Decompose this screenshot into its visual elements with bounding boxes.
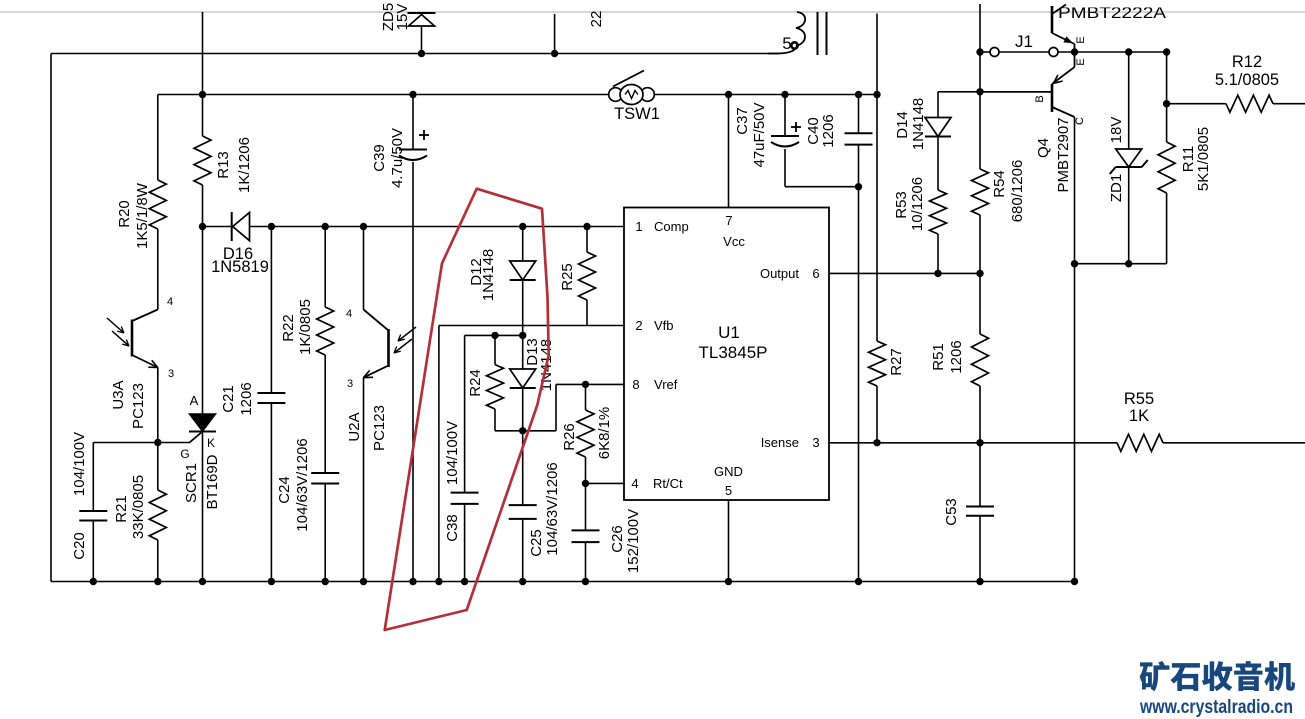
capacitor C53 xyxy=(943,498,994,526)
junction C40 ground xyxy=(855,578,862,585)
junction D12 top xyxy=(519,223,526,230)
svg-text:R22: R22 xyxy=(280,314,297,342)
wire C39 to ground xyxy=(412,162,414,582)
op-amp U1 TL3845P box xyxy=(624,208,829,501)
svg-text:152/100V: 152/100V xyxy=(625,509,642,573)
wire J1 right xyxy=(1058,51,1167,53)
wire D12 anode xyxy=(522,227,524,262)
zener diode ZD1 18V xyxy=(1108,117,1148,203)
resistor R12 5.1/0805 xyxy=(1215,53,1279,112)
resistor R54 680/1206 xyxy=(972,160,1026,223)
junction R27 Isense xyxy=(873,439,880,446)
svg-text:1K: 1K xyxy=(1129,407,1149,425)
junction C40 top xyxy=(855,91,862,98)
jumper J1 xyxy=(990,32,1058,57)
diode D12 1N4148 xyxy=(468,249,536,302)
wire C53 top xyxy=(979,443,981,507)
svg-text:18V: 18V xyxy=(1108,117,1125,144)
wire C20 top xyxy=(92,443,94,512)
svg-text:U2A: U2A xyxy=(346,412,363,441)
junction Output node xyxy=(976,270,983,277)
wire Vfb xyxy=(439,325,624,327)
junction Rt/Ct xyxy=(582,480,589,487)
junction C39 top xyxy=(409,91,416,98)
svg-text:A: A xyxy=(190,393,199,408)
wire R11 top xyxy=(1166,52,1168,142)
wire collector net xyxy=(1075,263,1167,265)
wire Isense pin 3 xyxy=(829,442,1117,444)
junction C21 ground xyxy=(268,578,275,585)
svg-text:3: 3 xyxy=(347,378,353,390)
capacitor C20 104/100V xyxy=(71,432,107,560)
junction R53 output xyxy=(934,270,941,277)
wire step to Vref xyxy=(556,384,624,430)
svg-text:PC123: PC123 xyxy=(371,405,388,451)
junction R24 top xyxy=(491,332,498,339)
wire SCR cathode xyxy=(202,432,204,582)
wire C38 bottom xyxy=(464,504,466,582)
junction Q4 base net xyxy=(976,88,983,95)
junction C25 ground xyxy=(519,578,526,585)
wire Vcc pin 7 xyxy=(728,95,730,208)
svg-text:C26: C26 xyxy=(609,525,626,553)
svg-text:Vref: Vref xyxy=(654,377,678,392)
junction node A xyxy=(199,223,206,230)
svg-text:www.crystalradio.cn: www.crystalradio.cn xyxy=(1139,697,1293,718)
svg-text:C39: C39 xyxy=(371,144,388,172)
wire stub node 22 xyxy=(554,14,556,54)
transistor Q4 PMBT2907 xyxy=(1034,52,1087,193)
optocoupler U2A PC123 xyxy=(346,308,416,451)
junction C24 ground xyxy=(322,578,329,585)
wire D13 bottom link xyxy=(495,430,556,432)
svg-text:R27: R27 xyxy=(888,348,905,376)
junction Vfb-down ground xyxy=(435,578,442,585)
junction C38 ground xyxy=(461,578,468,585)
wire R26 top xyxy=(585,384,587,410)
transistor Q5 PMBT2222A xyxy=(1052,5,1166,53)
wire aux rail top xyxy=(876,14,878,342)
svg-text:5: 5 xyxy=(725,483,732,498)
svg-text:22: 22 xyxy=(588,11,605,28)
svg-text:R20: R20 xyxy=(116,200,133,228)
svg-text:B: B xyxy=(1034,95,1046,102)
svg-text:C: C xyxy=(1074,117,1086,125)
wire R51 bottom xyxy=(979,386,981,443)
junction Vcc xyxy=(725,91,732,98)
svg-text:R21: R21 xyxy=(113,495,130,523)
svg-text:BT169D: BT169D xyxy=(204,454,221,509)
wire C39 top xyxy=(412,95,414,150)
wire Isense right xyxy=(1163,442,1305,444)
junction R25 top xyxy=(583,223,590,230)
svg-text:104/63V/1206: 104/63V/1206 xyxy=(294,438,311,531)
wire R25 bottom xyxy=(586,300,588,326)
svg-text:4: 4 xyxy=(346,308,352,320)
svg-text:Vcc: Vcc xyxy=(723,234,745,249)
junction D13 bottom xyxy=(519,427,526,434)
wire D13 cathode xyxy=(522,388,524,431)
junction R22 top xyxy=(322,223,329,230)
resistor R21 33K/0805 xyxy=(113,475,166,540)
svg-text:1N5819: 1N5819 xyxy=(211,258,269,276)
wire top rail xyxy=(51,53,779,55)
svg-text:R24: R24 xyxy=(467,369,484,397)
resistor R51 1206 xyxy=(930,334,989,386)
wire C53 bottom xyxy=(979,516,981,582)
svg-text:C24: C24 xyxy=(276,476,293,504)
wire D14 top jog xyxy=(938,92,1052,118)
svg-text:1K/0805: 1K/0805 xyxy=(297,299,314,355)
svg-text:2: 2 xyxy=(635,318,642,333)
svg-text:5: 5 xyxy=(782,34,791,53)
junction R12 node xyxy=(1163,100,1170,107)
junction C40/C37 node xyxy=(855,183,862,190)
svg-text:Q4: Q4 xyxy=(1035,138,1052,158)
pin 8 Vref xyxy=(632,377,677,392)
svg-text:Comp: Comp xyxy=(654,219,689,234)
svg-text:D14: D14 xyxy=(894,111,911,139)
svg-text:C20: C20 xyxy=(71,532,88,560)
junction D13 top xyxy=(519,332,526,339)
svg-text:U3A: U3A xyxy=(110,380,127,409)
wire C24 bottom xyxy=(324,484,326,582)
junction R26 top xyxy=(582,381,589,388)
junction aux rail xyxy=(873,91,880,98)
svg-text:5.1/0805: 5.1/0805 xyxy=(1215,71,1279,89)
junction J1 left xyxy=(976,48,983,55)
svg-text:K: K xyxy=(207,436,215,450)
wire top stub R13 xyxy=(202,12,204,136)
thermal switch TSW1 xyxy=(609,71,660,124)
svg-text:3: 3 xyxy=(168,368,174,380)
capacitor C21 1206 xyxy=(220,382,285,415)
transformer T1 winding pin 5 xyxy=(768,12,805,54)
junction zener-rail xyxy=(418,50,425,57)
wire C26 bottom xyxy=(585,542,587,581)
resistor R53 10/1206 xyxy=(893,177,947,234)
pin 2 Vfb xyxy=(635,318,673,333)
pin 6 Output xyxy=(760,266,820,281)
capacitor C37 47uF/50V xyxy=(734,102,801,167)
pin 3 Isense xyxy=(761,435,820,450)
top gray border line xyxy=(0,11,1305,13)
wire R12 left xyxy=(1167,103,1226,105)
diode D13 1N4148 xyxy=(510,335,555,391)
resistor R13 xyxy=(194,136,253,193)
svg-text:104/63V/1206: 104/63V/1206 xyxy=(544,462,561,555)
svg-text:G: G xyxy=(180,447,189,461)
svg-text:6K8/1%: 6K8/1% xyxy=(596,407,613,460)
svg-text:10/1206: 10/1206 xyxy=(909,177,926,231)
svg-text:1206: 1206 xyxy=(948,340,965,373)
svg-text:R51: R51 xyxy=(930,343,947,371)
wire D12 cathode xyxy=(522,280,524,335)
resistor R55 1K xyxy=(1117,390,1163,451)
wire U2A emitter down xyxy=(363,378,365,582)
svg-text:4: 4 xyxy=(167,296,173,308)
pin 7 Vcc xyxy=(723,213,745,249)
wire R20 top xyxy=(157,95,159,181)
wire R22 to C24 xyxy=(324,355,326,473)
diode D16 1N5819 xyxy=(211,212,269,276)
junction U2A collector xyxy=(360,223,367,230)
wire C26 top xyxy=(585,483,587,530)
wire Vfb down xyxy=(438,326,440,582)
svg-text:47uF/50V: 47uF/50V xyxy=(751,102,768,167)
capacitor C25 104/63V/1206 xyxy=(509,462,561,556)
wire R13 to node A xyxy=(202,185,204,227)
svg-text:Isense: Isense xyxy=(761,435,799,450)
thyristor SCR1 BT169D xyxy=(180,393,221,510)
capacitor C39 4.7u/50V xyxy=(371,128,429,188)
junction C53 ground xyxy=(976,578,983,585)
svg-text:1N4148: 1N4148 xyxy=(910,98,927,151)
wire Q4 base xyxy=(980,91,1051,93)
wire C21 bottom xyxy=(270,403,272,582)
junction J1 zd1 xyxy=(1125,48,1132,55)
capacitor C38 104/100V xyxy=(444,421,479,542)
svg-text:C25: C25 xyxy=(528,529,545,557)
watermark url xyxy=(1139,697,1293,718)
junction C20 ground xyxy=(90,578,97,585)
wire C38 top xyxy=(464,335,466,492)
wire Q4 collector to ground xyxy=(1074,264,1076,582)
junction C21 top xyxy=(268,223,275,230)
wire C25 top xyxy=(522,431,524,505)
wire R26 bottom xyxy=(585,457,587,483)
junction ZD1 bottom xyxy=(1125,260,1132,267)
svg-text:15V: 15V xyxy=(394,4,411,31)
wire C40 top xyxy=(858,95,860,134)
svg-text:R12: R12 xyxy=(1232,53,1262,71)
svg-text:104/100V: 104/100V xyxy=(444,421,461,485)
junction gate node xyxy=(154,439,161,446)
svg-text:Rt/Ct: Rt/Ct xyxy=(653,476,683,491)
svg-text:8: 8 xyxy=(632,377,639,392)
wire R11 bottom xyxy=(1166,193,1168,264)
wire C37 bottom jog xyxy=(785,149,859,187)
resistor R24 xyxy=(467,365,504,409)
svg-text:33K/0805: 33K/0805 xyxy=(130,475,147,539)
wire R51 top xyxy=(979,273,981,334)
svg-text:7: 7 xyxy=(725,213,732,228)
svg-text:104/100V: 104/100V xyxy=(71,432,88,496)
wire R22 top xyxy=(324,227,326,308)
svg-text:4: 4 xyxy=(631,476,638,491)
wire R21 top xyxy=(157,443,159,491)
junction collector ground xyxy=(1071,578,1078,585)
resistor R26 6K8/1% xyxy=(561,407,613,460)
wire C25 bottom xyxy=(522,519,524,582)
junction U2A ground xyxy=(360,578,367,585)
svg-text:680/1206: 680/1206 xyxy=(1009,160,1026,223)
svg-text:U1: U1 xyxy=(718,323,740,342)
svg-text:C53: C53 xyxy=(943,498,960,526)
wire Rt/Ct xyxy=(586,482,625,484)
svg-text:3: 3 xyxy=(812,435,819,450)
wire GND pin 5 xyxy=(728,500,730,582)
wire U2A collector xyxy=(363,227,365,310)
junction C37 top xyxy=(781,91,788,98)
capacitor C24 104/63V/1206 xyxy=(276,438,339,531)
optocoupler U3A PC123 xyxy=(107,296,174,429)
wire C37 top xyxy=(784,95,786,137)
svg-text:PMBT2907: PMBT2907 xyxy=(1055,117,1072,192)
svg-text:E: E xyxy=(1075,58,1087,65)
junction stub-rail xyxy=(551,50,558,57)
junction C26 ground xyxy=(582,578,589,585)
wire zener ZD5 stub xyxy=(421,26,423,54)
svg-text:1206: 1206 xyxy=(238,382,255,415)
label 22 (cropped) xyxy=(588,11,605,28)
svg-text:R53: R53 xyxy=(893,191,910,219)
wire upper rail (Vcc) xyxy=(158,94,877,96)
svg-text:PC123: PC123 xyxy=(130,383,147,429)
wire D16 anode to comp net xyxy=(250,226,625,228)
resistor R27 xyxy=(869,341,905,386)
svg-text:Vfb: Vfb xyxy=(654,318,674,333)
resistor R25 xyxy=(559,252,596,300)
wire J1 net vertical top xyxy=(979,4,981,169)
svg-text:ZD1: ZD1 xyxy=(1108,174,1125,202)
junction SCR ground xyxy=(199,578,206,585)
svg-text:C37: C37 xyxy=(734,107,751,135)
svg-text:1K/1206: 1K/1206 xyxy=(236,137,253,193)
zener diode ZD5 xyxy=(380,3,436,31)
wire C21 top xyxy=(270,227,272,394)
wire ZD1 top xyxy=(1128,52,1130,149)
wire R54 bottom xyxy=(979,215,981,273)
svg-text:SCR1: SCR1 xyxy=(183,463,200,503)
wire Q4 collector xyxy=(1074,117,1076,264)
svg-text:J1: J1 xyxy=(1015,32,1033,51)
svg-text:1N4148: 1N4148 xyxy=(480,249,497,302)
junction R13 top xyxy=(199,91,206,98)
wire D14 to R53 xyxy=(937,137,939,191)
wire C40 bottom xyxy=(858,145,860,582)
wire SCR anode xyxy=(202,227,204,414)
svg-text:E: E xyxy=(1075,36,1087,43)
svg-text:TSW1: TSW1 xyxy=(614,105,660,123)
red annotation outline xyxy=(385,189,549,630)
wire R24 top xyxy=(494,335,496,364)
pin 5 GND xyxy=(714,464,743,498)
junction C39 ground xyxy=(409,578,416,585)
svg-text:R55: R55 xyxy=(1124,390,1154,408)
svg-text:1: 1 xyxy=(635,219,642,234)
junction R51 Isense xyxy=(976,439,983,446)
wire R21 bottom xyxy=(157,540,159,582)
svg-text:R13: R13 xyxy=(215,151,232,179)
wire R53 bottom xyxy=(937,234,939,273)
svg-text:Output: Output xyxy=(760,266,799,281)
svg-text:6: 6 xyxy=(812,266,819,281)
wire D13 top link xyxy=(465,334,523,336)
wire J1 left xyxy=(980,51,990,53)
pin 1 Comp xyxy=(635,219,688,234)
wire R24 bottom xyxy=(494,409,496,431)
transformer T1 core xyxy=(818,12,827,55)
svg-text:R25: R25 xyxy=(559,263,576,291)
pin 4 Rt/Ct xyxy=(631,476,683,491)
wire R12 right xyxy=(1273,103,1305,105)
svg-text:1206: 1206 xyxy=(820,114,837,147)
junction Q4 collector node xyxy=(1071,260,1078,267)
svg-text:R26: R26 xyxy=(561,423,578,451)
resistor R11 5K1/0805 xyxy=(1158,127,1212,193)
wire bottom ground rail xyxy=(51,581,1075,583)
wire gate xyxy=(93,442,190,444)
svg-text:C38: C38 xyxy=(444,514,461,542)
capacitor C40 1206 xyxy=(805,114,873,147)
watermark logo text xyxy=(1140,661,1295,691)
svg-text:PMBT2222A: PMBT2222A xyxy=(1058,5,1166,22)
junction J1 corner xyxy=(1163,48,1170,55)
wire R27 to Isense xyxy=(876,386,878,443)
junction J1 emitters xyxy=(1071,48,1078,55)
svg-text:5K1/0805: 5K1/0805 xyxy=(1195,127,1212,191)
wire node A to D16 cathode xyxy=(203,226,232,228)
wire U3A emitter down xyxy=(157,368,159,443)
svg-text:1K5/1/8W: 1K5/1/8W xyxy=(134,182,151,249)
resistor R22 1K/0805 xyxy=(280,299,334,355)
svg-text:C21: C21 xyxy=(220,385,237,413)
svg-text:GND: GND xyxy=(714,464,743,479)
svg-text:R54: R54 xyxy=(991,170,1008,198)
junction R21 ground xyxy=(154,578,161,585)
diode D14 1N4148 xyxy=(894,98,951,151)
wire R25 top xyxy=(586,227,588,253)
wire R20 to U3A collector xyxy=(157,229,159,310)
svg-text:TL3845P: TL3845P xyxy=(699,343,768,362)
capacitor C26 152/100V xyxy=(572,509,642,573)
left border wire xyxy=(50,54,52,582)
junction GND ground xyxy=(725,578,732,585)
wire Output pin 6 xyxy=(829,272,980,274)
svg-text:4.7u/50V: 4.7u/50V xyxy=(389,128,406,188)
wire C20 bottom xyxy=(92,521,94,582)
resistor R20 xyxy=(116,180,166,249)
wire ZD1 bottom xyxy=(1128,167,1130,264)
